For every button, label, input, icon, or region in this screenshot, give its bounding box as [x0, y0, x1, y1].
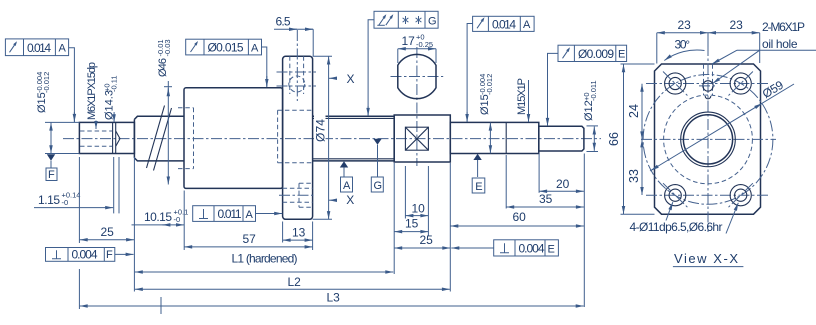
- svg-text:33: 33: [627, 169, 641, 183]
- svg-text:A: A: [523, 19, 531, 31]
- svg-text:L1 (hardened): L1 (hardened): [232, 252, 298, 266]
- svg-text:23: 23: [678, 18, 692, 32]
- svg-text:0.004: 0.004: [519, 241, 545, 255]
- svg-text:F: F: [48, 169, 55, 181]
- svg-text:Ø0.015: Ø0.015: [208, 41, 244, 55]
- svg-text:Ø15: Ø15: [36, 92, 48, 113]
- svg-text:Ø74: Ø74: [314, 119, 328, 142]
- svg-text:6.5: 6.5: [276, 15, 291, 29]
- svg-text:A: A: [246, 209, 254, 221]
- svg-text:Ø46: Ø46: [157, 58, 169, 77]
- svg-text:-0.11: -0.11: [110, 75, 119, 92]
- svg-text:20: 20: [556, 177, 570, 191]
- svg-text:X: X: [347, 72, 355, 86]
- svg-text:-0.012: -0.012: [42, 72, 51, 93]
- svg-text:2-M6X1P: 2-M6X1P: [762, 20, 805, 34]
- svg-text:24: 24: [627, 104, 641, 118]
- svg-text:X: X: [346, 193, 354, 207]
- svg-text:-0.03: -0.03: [163, 39, 172, 56]
- svg-text:25: 25: [101, 225, 115, 239]
- svg-text:Ø15: Ø15: [479, 94, 491, 115]
- svg-text:-0: -0: [174, 215, 181, 224]
- svg-text:A: A: [251, 43, 259, 55]
- svg-text:66: 66: [607, 132, 621, 146]
- svg-text:0.011: 0.011: [218, 207, 242, 221]
- svg-text:35: 35: [539, 192, 553, 206]
- svg-text:M15X1P: M15X1P: [516, 78, 528, 115]
- svg-text:17: 17: [402, 34, 416, 48]
- svg-text:F: F: [106, 249, 113, 261]
- svg-text:E: E: [475, 181, 482, 193]
- svg-text:25: 25: [420, 233, 434, 247]
- svg-text:Ø59: Ø59: [760, 78, 786, 101]
- svg-text:oil hole: oil hole: [762, 37, 798, 51]
- svg-text:-0.25: -0.25: [416, 40, 433, 49]
- svg-text:Ø12: Ø12: [583, 100, 595, 121]
- svg-text:0.014: 0.014: [27, 41, 51, 55]
- svg-text:57: 57: [243, 232, 257, 246]
- svg-text:0.004: 0.004: [72, 247, 98, 261]
- svg-text:23: 23: [730, 18, 744, 32]
- svg-text:E: E: [548, 243, 555, 255]
- svg-text:13: 13: [292, 226, 306, 240]
- svg-text:60: 60: [513, 210, 527, 224]
- svg-text:G: G: [374, 180, 383, 192]
- svg-text:E: E: [618, 49, 625, 61]
- svg-text:A: A: [343, 180, 351, 192]
- svg-text:10: 10: [412, 201, 426, 215]
- svg-text:M6X1PX15dp: M6X1PX15dp: [86, 62, 98, 120]
- svg-text:30°: 30°: [675, 38, 691, 52]
- svg-text:View X-X: View X-X: [674, 251, 738, 266]
- svg-text:-0: -0: [62, 198, 69, 207]
- svg-text:10.15: 10.15: [144, 210, 172, 224]
- svg-text:L3: L3: [327, 291, 341, 305]
- svg-text:G: G: [428, 16, 437, 28]
- svg-text:1.15: 1.15: [38, 193, 60, 207]
- svg-text:-0.012: -0.012: [485, 74, 494, 95]
- svg-text:15: 15: [405, 217, 419, 231]
- svg-text:L2: L2: [288, 275, 302, 289]
- svg-text:4-Ø11dp6.5,Ø6.6hr: 4-Ø11dp6.5,Ø6.6hr: [630, 220, 723, 234]
- svg-text:-0.011: -0.011: [589, 80, 598, 101]
- svg-text:A: A: [59, 43, 67, 55]
- svg-text:Ø0.009: Ø0.009: [578, 47, 614, 61]
- svg-text:0.014: 0.014: [492, 18, 516, 32]
